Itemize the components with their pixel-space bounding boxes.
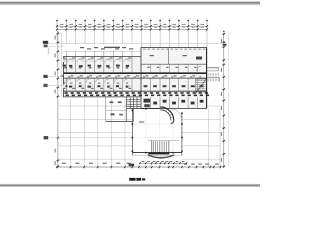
bottom dimension line: [56, 163, 221, 169]
perron arcs: [148, 155, 175, 158]
corridor walls: [63, 72, 206, 74]
left dimension line: [55, 31, 62, 168]
south window band: [63, 91, 209, 97]
big rooms bottom wall: [141, 63, 207, 65]
wing left wall: [63, 56, 65, 97]
right dimension line: [221, 31, 229, 169]
wing top wall: [63, 55, 140, 57]
top border band: [0, 0, 260, 3]
right block top wall: [141, 47, 207, 49]
title text: [129, 178, 145, 181]
window label text row: [80, 47, 133, 50]
level mark: [129, 164, 135, 167]
big room window dashes: [143, 49, 205, 71]
grid extension lines: [57, 31, 207, 47]
stair sub-dimension: [139, 161, 187, 165]
east balcony lower: [207, 77, 219, 81]
hall left wall: [131, 109, 133, 156]
hall columns: [132, 108, 183, 153]
bottom border band: [0, 183, 260, 186]
annex rooms: [106, 97, 134, 121]
entrance door bar: [148, 152, 169, 154]
room row 1: [63, 56, 132, 72]
SE stair block: [196, 79, 207, 94]
wing tint: [63, 56, 207, 97]
stair/elevator core: [127, 97, 150, 109]
hall bottom wall: [132, 152, 182, 154]
east balcony hatch: [207, 73, 218, 76]
top dimension line: [56, 20, 208, 32]
mid zone dividers: [144, 64, 204, 91]
hall interior grid: [133, 109, 182, 152]
right block right wall: [206, 48, 208, 109]
axis leaders left: [43, 47, 132, 140]
terrace grid: [58, 99, 221, 167]
wing outer sill line: [63, 50, 140, 52]
south rooms of right block: [141, 97, 207, 109]
big room divider: [167, 48, 169, 65]
hall label: [139, 121, 144, 122]
corridor door marks: [61, 75, 201, 77]
hall top wall: [132, 108, 160, 110]
axis line A (y=43.3): [43, 41, 227, 48]
interior stair: [148, 140, 179, 152]
window mullion stubs: [66, 51, 132, 56]
right block left wall: [140, 48, 142, 109]
room labels: [150, 55, 154, 56]
east balcony upper: [207, 67, 219, 71]
curved wall hook: [160, 107, 182, 124]
hall right wall: [181, 113, 183, 155]
room row 2: [63, 78, 132, 91]
